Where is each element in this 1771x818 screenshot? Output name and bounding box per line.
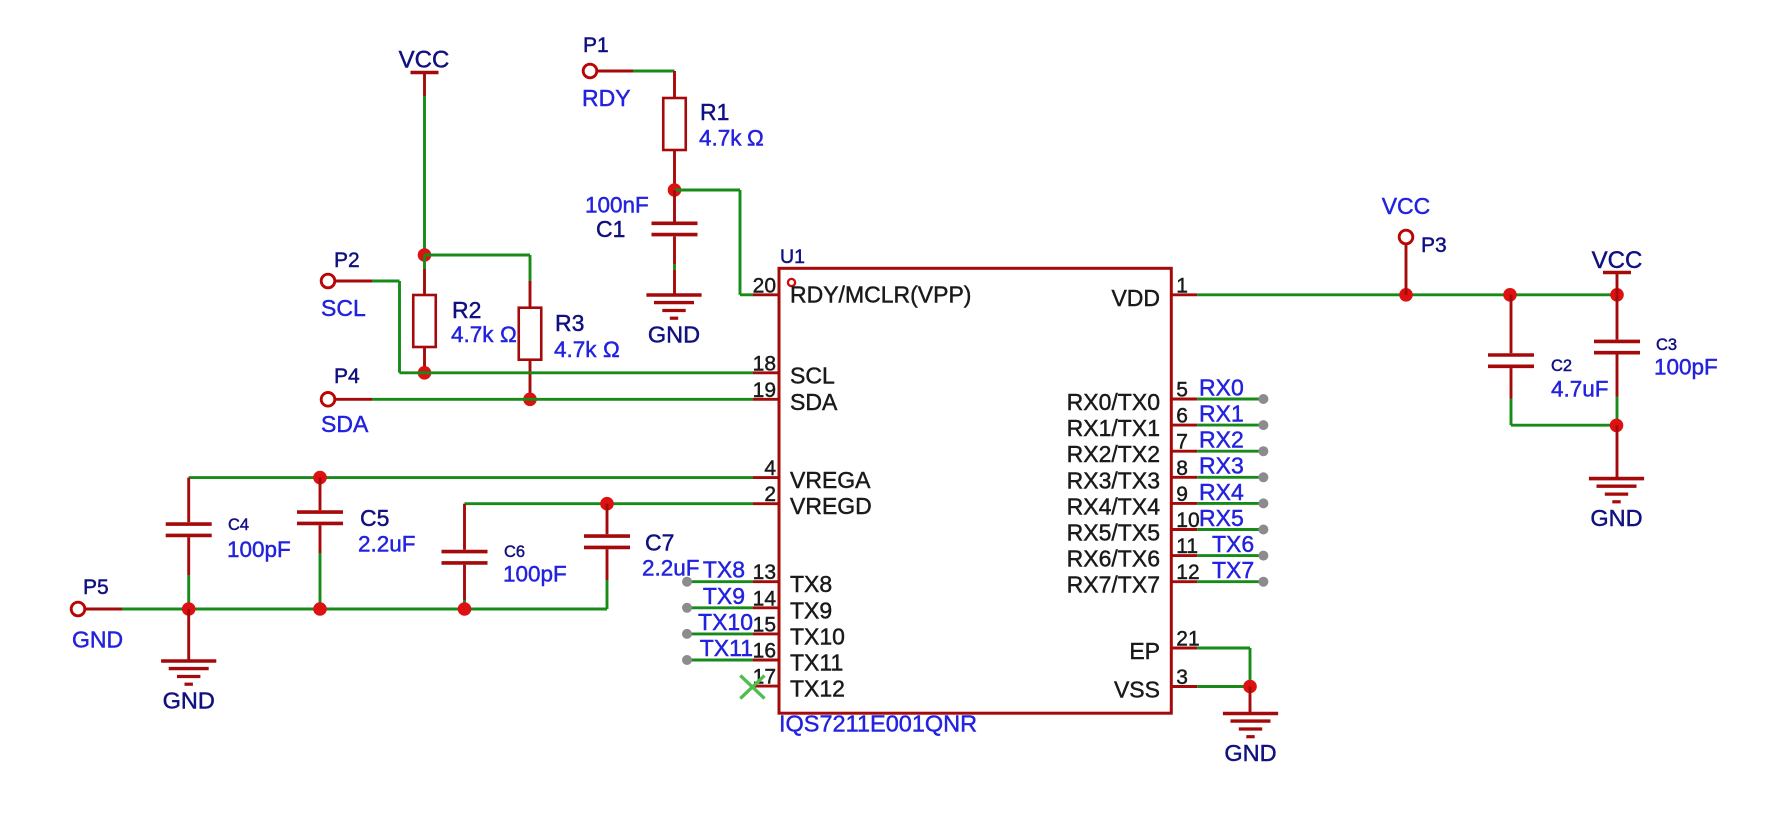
- svg-text:Ω: Ω: [500, 322, 517, 347]
- svg-text:7: 7: [1176, 431, 1188, 454]
- svg-text:RDY/MCLR(VPP): RDY/MCLR(VPP): [790, 282, 971, 308]
- svg-text:TX7: TX7: [1212, 557, 1254, 583]
- svg-text:4.7k: 4.7k: [451, 322, 494, 347]
- svg-text:RX3/TX3: RX3/TX3: [1067, 467, 1160, 493]
- svg-text:SCL: SCL: [321, 295, 366, 321]
- svg-text:TX6: TX6: [1212, 531, 1254, 557]
- svg-text:RX0/TX0: RX0/TX0: [1067, 389, 1160, 415]
- svg-text:15: 15: [753, 613, 776, 636]
- svg-text:VCC: VCC: [399, 47, 450, 74]
- svg-text:6: 6: [1176, 405, 1188, 428]
- svg-text:GND: GND: [1224, 740, 1276, 766]
- svg-text:IQS7211E001QNR: IQS7211E001QNR: [779, 711, 977, 737]
- svg-text:RX4: RX4: [1199, 479, 1244, 505]
- svg-text:9: 9: [1176, 483, 1188, 506]
- svg-text:P2: P2: [334, 249, 360, 272]
- svg-text:P5: P5: [83, 576, 109, 599]
- svg-text:U1: U1: [780, 246, 805, 268]
- svg-text:2.2uF: 2.2uF: [358, 532, 416, 557]
- svg-text:RX3: RX3: [1199, 453, 1244, 479]
- svg-text:VREGD: VREGD: [790, 493, 872, 519]
- svg-text:VREGA: VREGA: [790, 467, 871, 493]
- svg-text:8: 8: [1176, 457, 1188, 480]
- svg-text:SDA: SDA: [790, 389, 838, 415]
- svg-text:100nF: 100nF: [585, 193, 649, 218]
- svg-text:RX0: RX0: [1199, 374, 1244, 400]
- svg-text:14: 14: [753, 587, 777, 610]
- svg-text:TX8: TX8: [790, 571, 832, 597]
- svg-text:4.7uF: 4.7uF: [1551, 377, 1609, 402]
- svg-text:TX9: TX9: [790, 597, 832, 623]
- svg-text:TX10: TX10: [790, 623, 845, 649]
- svg-text:4.7k: 4.7k: [699, 126, 742, 151]
- svg-text:TX9: TX9: [703, 583, 745, 609]
- svg-text:R2: R2: [452, 297, 481, 323]
- svg-text:C3: C3: [1656, 336, 1677, 354]
- svg-text:GND: GND: [163, 687, 215, 713]
- svg-text:TX8: TX8: [703, 557, 745, 583]
- svg-text:5: 5: [1176, 379, 1188, 402]
- svg-text:2: 2: [764, 483, 776, 506]
- svg-text:P1: P1: [583, 34, 609, 57]
- svg-text:EP: EP: [1129, 638, 1160, 664]
- svg-text:18: 18: [753, 352, 776, 375]
- svg-text:Ω: Ω: [747, 126, 764, 151]
- svg-text:P3: P3: [1421, 234, 1447, 257]
- svg-text:11: 11: [1176, 535, 1198, 558]
- svg-text:21: 21: [1176, 628, 1199, 651]
- svg-text:P4: P4: [334, 365, 360, 388]
- svg-text:16: 16: [753, 640, 776, 663]
- svg-text:20: 20: [753, 274, 776, 297]
- svg-text:VDD: VDD: [1111, 285, 1160, 311]
- svg-text:C1: C1: [596, 216, 625, 242]
- svg-text:SCL: SCL: [790, 362, 835, 388]
- svg-text:R1: R1: [700, 99, 729, 125]
- svg-text:C5: C5: [360, 505, 389, 531]
- svg-text:GND: GND: [1590, 505, 1642, 531]
- svg-text:VSS: VSS: [1114, 677, 1160, 703]
- svg-text:TX11: TX11: [790, 650, 843, 676]
- svg-text:VCC: VCC: [1382, 193, 1431, 219]
- svg-text:3: 3: [1176, 666, 1188, 689]
- svg-text:4: 4: [764, 457, 776, 480]
- svg-text:RX1: RX1: [1199, 401, 1244, 427]
- svg-text:TX12: TX12: [790, 676, 845, 702]
- svg-text:4.7k: 4.7k: [554, 337, 597, 362]
- svg-text:R3: R3: [555, 310, 584, 336]
- svg-text:GND: GND: [72, 627, 123, 653]
- svg-text:RX6/TX6: RX6/TX6: [1067, 546, 1160, 572]
- svg-text:2.2uF: 2.2uF: [642, 556, 700, 581]
- svg-text:RX1/TX1: RX1/TX1: [1067, 415, 1160, 441]
- svg-text:RX2: RX2: [1199, 427, 1244, 453]
- svg-text:RX5/TX5: RX5/TX5: [1067, 520, 1160, 546]
- svg-text:19: 19: [753, 379, 776, 402]
- svg-text:C4: C4: [228, 516, 249, 534]
- svg-text:1: 1: [1176, 274, 1188, 297]
- svg-text:RX5: RX5: [1199, 505, 1244, 531]
- svg-text:SDA: SDA: [321, 411, 369, 437]
- svg-text:C2: C2: [1551, 357, 1572, 375]
- svg-text:100pF: 100pF: [1654, 355, 1718, 380]
- svg-text:VCC: VCC: [1592, 247, 1643, 274]
- svg-text:12: 12: [1176, 561, 1199, 584]
- svg-text:TX11: TX11: [700, 635, 753, 661]
- svg-text:13: 13: [753, 561, 776, 584]
- svg-text:C7: C7: [645, 530, 674, 556]
- svg-text:RX4/TX4: RX4/TX4: [1067, 493, 1161, 519]
- svg-text:Ω: Ω: [603, 337, 620, 362]
- svg-text:RX7/TX7: RX7/TX7: [1067, 572, 1160, 598]
- svg-text:10: 10: [1176, 509, 1199, 532]
- svg-text:RDY: RDY: [582, 85, 631, 111]
- svg-text:C6: C6: [504, 543, 525, 561]
- svg-text:100pF: 100pF: [227, 537, 291, 562]
- svg-text:GND: GND: [648, 321, 700, 347]
- svg-text:100pF: 100pF: [503, 562, 567, 587]
- svg-text:TX10: TX10: [698, 609, 753, 635]
- svg-text:RX2/TX2: RX2/TX2: [1067, 441, 1160, 467]
